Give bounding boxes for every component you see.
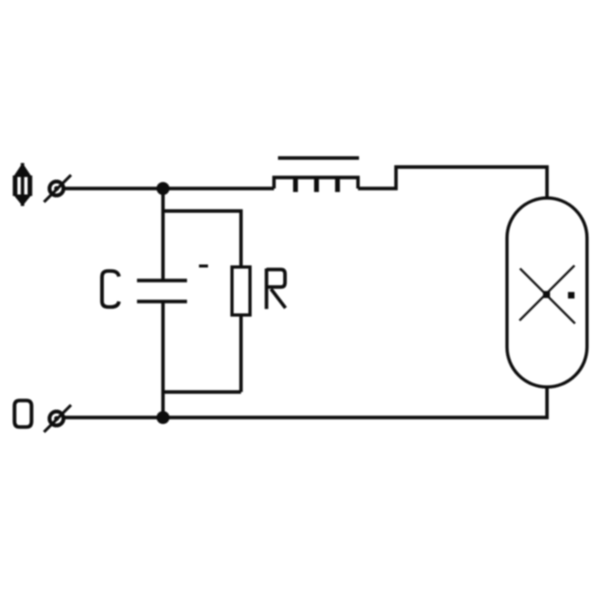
wire capacitor top lead [161,189,164,281]
node junction top [157,182,170,195]
wire R bottom lead [239,315,242,392]
lamp center dot [543,291,550,298]
node junction bottom [157,411,170,424]
capacitor C1 plates [137,279,187,283]
wire bottom loop [163,390,241,393]
lamp EL1 envelope [507,198,587,387]
wire inductor to lamp [358,167,547,199]
polarity mark [199,265,208,268]
resistor R1 body [232,267,250,315]
inductor L1 winding [274,178,358,189]
wire capacitor bottom lead [161,302,164,418]
wire lamp bottom [64,386,547,418]
terminal ø bottom (clamp symbol) [44,405,71,432]
inductor L1 core [278,156,359,159]
wire R branch top [163,211,241,267]
label R [267,269,286,310]
lamp filament cross [520,266,576,324]
terminal label O (neutral) [15,401,32,428]
wire top bus [64,187,274,190]
terminal ø top (clamp symbol) [44,175,71,202]
terminal label Φ (phase symbol) [13,163,32,206]
lamp side dot [568,292,575,299]
label C [102,271,119,307]
